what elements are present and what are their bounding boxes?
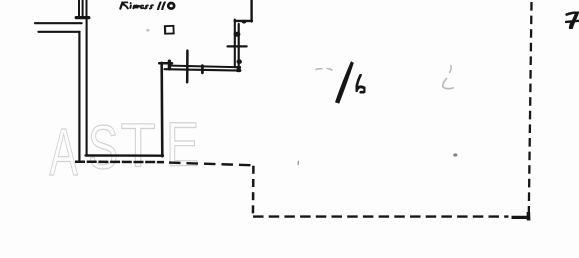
wire top chimney line 1 — [78, 0, 80, 17]
node dashed bottom end tick — [512, 216, 529, 219]
node small tick — [201, 66, 204, 73]
wire top right vertical — [250, 0, 252, 22]
wire inner bottom wall — [86, 154, 163, 157]
wire middle wall top bar — [159, 62, 172, 65]
node window tick long — [186, 51, 189, 83]
watermark ASTE — [50, 109, 200, 189]
svg-text:T: T — [121, 111, 156, 180]
node handwritten 6 — [356, 75, 365, 92]
wire upper room wall bottom line — [165, 69, 241, 70]
node junction bar top-left — [76, 16, 89, 19]
wire left outer wall — [78, 32, 80, 162]
Rimessa handwritten label — [120, 2, 174, 10]
wire dashed bottom-left dense — [75, 160, 164, 163]
node faint squiggle before slash — [316, 68, 333, 70]
node right wall tick — [228, 45, 247, 47]
node crossed seven top right — [566, 12, 579, 28]
node thick tick at wall corner — [168, 61, 171, 69]
node small gray dot right area — [453, 153, 457, 156]
node handwritten slash of 1/6 — [335, 61, 354, 103]
node corner blob right wall — [237, 66, 241, 72]
wire left inner wall — [86, 18, 88, 156]
wire dashed right vertical — [529, 2, 532, 214]
node blob on top jog — [242, 20, 247, 24]
node blob on right wall upper — [234, 32, 241, 37]
svg-text:S: S — [88, 113, 118, 183]
wire top jog horizontal — [235, 20, 252, 22]
wire upper room wall top line — [171, 66, 240, 68]
wire dashed horizontal to corner — [169, 163, 254, 166]
wire horizontal H1 — [35, 22, 82, 24]
svg-text:A: A — [50, 114, 79, 189]
node faint curved mark — [443, 66, 454, 89]
node dashed end blob bottom right — [527, 212, 531, 221]
node i-dot of Rimessa — [130, 2, 132, 4]
wire top chimney line 2 — [82, 0, 84, 17]
wire dashed bottom long — [253, 215, 509, 217]
svg-text:E: E — [166, 109, 199, 179]
wire right wall outer line — [234, 20, 236, 68]
wire top chimney line 3 — [86, 0, 88, 18]
wire dashed vertical mid — [252, 166, 255, 219]
node blob on right wall lower — [237, 59, 242, 64]
node faint dot left of square — [146, 29, 149, 32]
wire middle vertical wall — [160, 63, 163, 156]
wire right wall inner line — [238, 24, 240, 71]
node faint apostrophe near dashed corner — [297, 161, 300, 165]
node small square symbol — [165, 25, 174, 34]
wire horizontal H2 — [39, 31, 80, 33]
